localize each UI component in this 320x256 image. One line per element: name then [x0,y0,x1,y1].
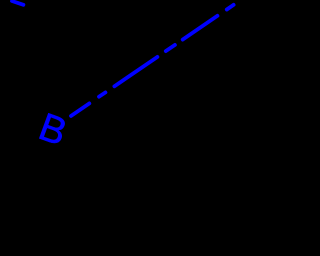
wire: dot 2 of dash-dot line [166,45,175,51]
wire: dash 2 of dash-dot line [114,57,157,86]
wire: short dash of second line at top-left corner [12,1,23,5]
wire: dot 1 of dash-dot line [99,92,105,96]
wire: dot 3 of dash-dot line (line end) [227,5,234,10]
wire: dash 1 of dash-dot line from B [71,103,89,116]
wire: dash 3 of dash-dot line [183,16,218,40]
